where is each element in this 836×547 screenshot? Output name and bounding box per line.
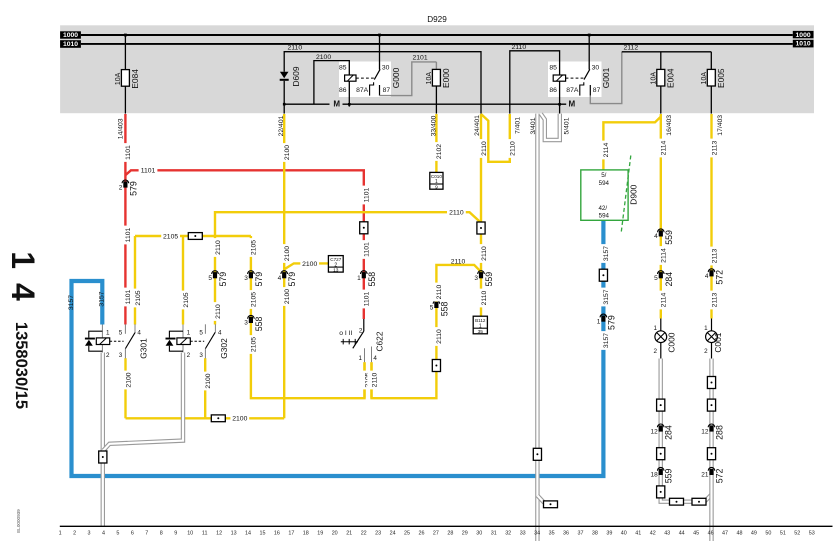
svg-text:16/403: 16/403 [666, 115, 673, 136]
svg-text:E004: E004 [665, 68, 675, 88]
svg-text:12: 12 [701, 428, 709, 435]
relay G001 wire 2110 to pin85 and 7/401 drop [510, 51, 560, 114]
svg-text:EL0000939: EL0000939 [16, 509, 21, 533]
pin 1 connector 558 [361, 271, 368, 274]
svg-text:11: 11 [202, 531, 208, 537]
splices on C000 ground ribbon [657, 399, 665, 411]
wire 2110 branch to C622 pin4 [372, 265, 482, 398]
svg-text:48: 48 [737, 531, 743, 537]
svg-text:16: 16 [274, 531, 280, 537]
svg-text:87: 87 [593, 87, 601, 94]
svg-text:87A: 87A [356, 87, 369, 94]
svg-text:B112: B112 [475, 318, 486, 323]
svg-text:5: 5 [199, 329, 203, 336]
svg-text:85: 85 [549, 65, 557, 72]
svg-text:1101: 1101 [125, 145, 132, 160]
relay G000 pin86 wire to M [348, 81, 350, 106]
ribbon splice on 3401 [533, 448, 541, 460]
junction ticks on bus 1000 [124, 34, 127, 37]
connector G302 with diode and switch [182, 325, 184, 353]
relay G000 pin87A [370, 82, 374, 95]
svg-text:1101: 1101 [364, 187, 371, 202]
svg-text:1000: 1000 [796, 32, 811, 39]
wire 3157 blue loop D900 to G301 [72, 220, 604, 476]
wire 2100 horizontal to G301 pin3 [126, 417, 285, 419]
label 2100 horizontal [230, 414, 249, 423]
labels 2110 main column [477, 139, 485, 158]
splice on 2100 horizontal [211, 415, 225, 422]
svg-text:13: 13 [333, 267, 339, 273]
svg-text:18: 18 [650, 472, 658, 479]
splice on 1101 red [360, 222, 368, 234]
svg-text:14: 14 [5, 251, 41, 315]
svg-text:558: 558 [254, 316, 264, 331]
svg-text:5: 5 [119, 329, 123, 336]
label 2105 G301 pin4 [131, 289, 139, 308]
engine-compartment band [60, 25, 814, 113]
wire 2105 G301 pin4 drop [134, 236, 136, 325]
fuse E005 10A [710, 52, 712, 70]
svg-text:10A: 10A [426, 72, 433, 85]
svg-text:C001: C001 [713, 332, 723, 352]
svg-text:M: M [333, 100, 340, 109]
svg-text:4: 4 [373, 355, 377, 362]
svg-text:2: 2 [653, 348, 657, 355]
wire 2100 G302 pin3 drop [204, 358, 206, 418]
wire 2112 relay G001 pin87 to fuses E004 E005 [590, 52, 622, 104]
svg-text:2110: 2110 [436, 284, 443, 299]
wire 16/403 2114 vertical [660, 114, 662, 319]
svg-text:3157: 3157 [99, 291, 106, 306]
splices on C001 ground ribbon [707, 377, 715, 389]
svg-text:1: 1 [653, 325, 657, 332]
svg-text:G302: G302 [219, 338, 229, 359]
splice on 2105 horizontal [188, 233, 202, 240]
svg-text:39: 39 [606, 531, 612, 537]
pin 2 connector 579 on red [122, 180, 129, 183]
svg-text:5: 5 [654, 275, 658, 282]
svg-text:1: 1 [704, 325, 708, 332]
svg-text:2100: 2100 [284, 145, 291, 160]
svg-text:14: 14 [245, 531, 251, 537]
pin 21 connector 572 [708, 467, 715, 470]
relay G001 pin30 wire [588, 35, 590, 70]
bus 1000 [81, 34, 793, 36]
M line of relay coils [284, 103, 329, 105]
svg-text:19: 19 [317, 531, 323, 537]
labels 3157 blue [599, 244, 607, 263]
svg-text:2: 2 [73, 531, 76, 537]
svg-text:2114: 2114 [661, 140, 668, 155]
relay G001 coil [553, 75, 565, 81]
svg-text:2101: 2101 [413, 55, 428, 62]
svg-text:2: 2 [119, 184, 123, 191]
svg-text:1010: 1010 [63, 41, 78, 48]
svg-text:17/403: 17/403 [717, 115, 724, 136]
label 2102 [432, 142, 440, 161]
wire 5401 ribbon loop [541, 114, 560, 140]
relay G001 [548, 62, 602, 98]
svg-text:594: 594 [599, 213, 610, 220]
svg-text:1: 1 [357, 275, 361, 282]
wire 2100 G301 pin3 drop [124, 358, 126, 418]
svg-text:1: 1 [479, 323, 482, 329]
svg-text:15: 15 [260, 531, 266, 537]
svg-text:2110: 2110 [451, 258, 466, 265]
svg-text:45: 45 [693, 531, 699, 537]
svg-text:2110: 2110 [481, 141, 488, 156]
svg-text:4: 4 [278, 275, 282, 282]
svg-text:3/401: 3/401 [530, 117, 537, 134]
svg-text:9: 9 [174, 531, 177, 537]
svg-text:87A: 87A [566, 87, 579, 94]
svg-text:2: 2 [359, 327, 363, 334]
svg-text:1: 1 [435, 179, 438, 185]
svg-text:1101: 1101 [364, 291, 371, 306]
lamp C000 ground ribbon [661, 359, 712, 502]
svg-text:7: 7 [145, 531, 148, 537]
bus label box 1000 right [793, 31, 814, 38]
svg-text:85: 85 [339, 65, 347, 72]
wire 2100 branch to C727 [284, 263, 328, 269]
svg-text:26: 26 [419, 531, 425, 537]
svg-text:2105: 2105 [251, 337, 258, 352]
svg-text:2110: 2110 [436, 329, 443, 344]
svg-text:52: 52 [794, 531, 800, 537]
svg-text:8: 8 [160, 531, 163, 537]
wire 17/403 2113 vertical [710, 114, 712, 319]
svg-text:23: 23 [375, 531, 381, 537]
svg-text:37: 37 [578, 531, 584, 537]
svg-text:86: 86 [339, 87, 347, 94]
label 2100 G301 [121, 371, 129, 390]
label 2105 G302 [179, 291, 187, 310]
svg-text:2114: 2114 [661, 292, 668, 307]
svg-text:E084: E084 [130, 69, 140, 89]
svg-text:579: 579 [254, 272, 264, 287]
svg-text:36: 36 [563, 531, 569, 537]
svg-text:14/403: 14/403 [117, 118, 124, 139]
relay G000 pin30 wire [379, 35, 381, 70]
svg-text:13: 13 [231, 531, 237, 537]
svg-text:30: 30 [592, 65, 600, 72]
relay G000 coil-contact dashed link [356, 77, 374, 79]
wire 1101 red horizontal branch [125, 170, 363, 319]
svg-text:12: 12 [650, 428, 658, 435]
svg-text:3: 3 [244, 275, 248, 282]
label 2110 horizontal [447, 208, 466, 217]
svg-text:2110: 2110 [215, 240, 222, 255]
bus 1010 [81, 43, 793, 45]
svg-text:3157: 3157 [603, 246, 610, 261]
splice on 3157 blue [599, 269, 607, 281]
relay G000 wire 2100 to pin85 [314, 61, 349, 104]
svg-text:G001: G001 [601, 67, 611, 88]
svg-text:50: 50 [765, 531, 771, 537]
svg-text:41: 41 [635, 531, 641, 537]
svg-text:572: 572 [715, 468, 725, 483]
svg-text:3157: 3157 [603, 333, 610, 348]
labels 2110 left column [211, 238, 219, 257]
svg-text:1: 1 [59, 531, 62, 537]
bottom grid numbers [59, 531, 815, 537]
svg-text:35: 35 [478, 329, 484, 335]
pin 12 connector 284 [657, 424, 664, 427]
relay G001 pin86 wire to M and 5401 exit [559, 81, 561, 113]
svg-text:5: 5 [430, 305, 434, 312]
svg-text:2110: 2110 [371, 372, 378, 387]
svg-text:559: 559 [664, 468, 674, 483]
svg-text:2102: 2102 [436, 144, 443, 159]
svg-text:35: 35 [549, 531, 555, 537]
svg-text:47: 47 [722, 531, 728, 537]
svg-text:1: 1 [187, 329, 191, 336]
svg-text:18: 18 [303, 531, 309, 537]
wire 14/403 1101 red vertical to G301 pin5 [124, 114, 126, 325]
svg-text:2100: 2100 [232, 416, 247, 423]
svg-text:2112: 2112 [624, 45, 639, 52]
svg-text:594: 594 [599, 180, 610, 187]
svg-text:7/401: 7/401 [515, 117, 522, 134]
svg-text:2100: 2100 [302, 261, 317, 268]
svg-text:579: 579 [606, 315, 616, 330]
wire 33/400 2102 vertical [435, 114, 437, 172]
svg-text:1: 1 [597, 318, 601, 325]
bus label box 1010 left [60, 40, 81, 48]
svg-text:2: 2 [187, 352, 191, 359]
svg-text:5: 5 [208, 275, 212, 282]
svg-text:32: 32 [505, 531, 511, 537]
relay G001 pin87 [589, 85, 591, 96]
connector box C727 [328, 256, 343, 273]
svg-text:M: M [569, 100, 576, 109]
wire 2101 relay G000 pin87 to fuse E000 [380, 62, 437, 96]
svg-text:2114: 2114 [661, 248, 668, 263]
svg-text:2100: 2100 [205, 373, 212, 388]
svg-text:21: 21 [701, 472, 709, 479]
wire 7/401 2110 loop [481, 114, 510, 162]
svg-text:12: 12 [216, 531, 222, 537]
svg-text:o I II: o I II [339, 330, 352, 337]
svg-text:10A: 10A [701, 72, 708, 85]
label 1101 horizontal [139, 166, 158, 175]
wire G302 pin2 ribbon join [103, 353, 183, 451]
svg-text:3157: 3157 [603, 289, 610, 304]
svg-text:22: 22 [361, 531, 367, 537]
svg-text:2110: 2110 [215, 304, 222, 319]
relay G001 contact blade [584, 69, 590, 79]
svg-text:2113: 2113 [711, 292, 718, 307]
svg-text:53: 53 [809, 531, 815, 537]
fuse E000 10A [435, 62, 437, 70]
svg-text:9: 9 [435, 184, 438, 190]
junction D609 to M line [283, 103, 286, 106]
svg-text:2105: 2105 [183, 292, 190, 307]
svg-text:5/: 5/ [601, 172, 606, 179]
svg-text:5/401: 5/401 [564, 117, 571, 134]
connector box C010 [430, 172, 443, 189]
svg-text:28: 28 [447, 531, 453, 537]
labels 2114 column [657, 139, 665, 158]
bus label box 1000 left [60, 31, 81, 38]
svg-text:2110: 2110 [512, 44, 527, 51]
connector box B112 [473, 316, 487, 334]
fuse E004 10A [660, 52, 662, 70]
svg-text:29: 29 [462, 531, 468, 537]
svg-text:579: 579 [128, 181, 138, 196]
wire 2105 chain to C622 pin1 [251, 236, 365, 398]
svg-text:4: 4 [654, 233, 658, 240]
svg-text:D929: D929 [427, 15, 447, 24]
svg-text:2113: 2113 [711, 248, 718, 263]
svg-text:3: 3 [474, 275, 478, 282]
svg-text:559: 559 [664, 230, 674, 245]
svg-text:2105: 2105 [251, 292, 258, 307]
svg-text:24/401: 24/401 [474, 115, 481, 136]
wire G301 pin2 ribbon to bottom [101, 353, 105, 527]
connector D900 dashed diagonal [621, 156, 631, 232]
svg-text:20: 20 [332, 531, 338, 537]
relay G000 coil [345, 75, 356, 81]
bus label box 1010 right [793, 40, 814, 48]
lamp C001 [711, 319, 713, 332]
svg-text:4: 4 [137, 329, 141, 336]
svg-text:21: 21 [346, 531, 352, 537]
bottom axis line [60, 525, 833, 527]
svg-text:87: 87 [383, 87, 391, 94]
labels 1101 red column [121, 143, 129, 162]
svg-text:10A: 10A [650, 72, 657, 85]
wire 3401 bottom stub to splice [537, 496, 546, 504]
svg-text:579: 579 [218, 272, 228, 287]
svg-text:43: 43 [664, 531, 670, 537]
relay G001 pin87A [580, 82, 584, 95]
labels 2113 column [707, 139, 715, 158]
splice on G301 ground ribbon [99, 451, 107, 463]
pin 18 connector 559 [657, 467, 664, 470]
svg-text:5: 5 [116, 531, 119, 537]
labels 2100 column [280, 143, 288, 162]
wire 2114 branch to D900 [603, 117, 660, 170]
svg-text:25: 25 [404, 531, 410, 537]
svg-text:2113: 2113 [711, 140, 718, 155]
svg-text:86: 86 [549, 87, 557, 94]
wire 2105 horizontal [135, 235, 251, 237]
splice on 2110 branch [432, 360, 440, 372]
svg-text:284: 284 [664, 425, 674, 440]
fuse E084 10A [124, 35, 126, 70]
wire 2110 horizontal [215, 212, 481, 324]
relay G001 coil-contact dashed link [566, 77, 584, 79]
wire 2105 G302 pin1 drop [182, 236, 184, 325]
svg-text:288: 288 [715, 425, 725, 440]
svg-text:6: 6 [131, 531, 134, 537]
pin 4 connector 559 [658, 229, 665, 232]
svg-text:24: 24 [390, 531, 396, 537]
svg-text:10: 10 [187, 531, 193, 537]
svg-text:31: 31 [491, 531, 497, 537]
label 2105 horizontal [161, 232, 180, 241]
svg-text:2105: 2105 [251, 240, 258, 255]
label 2110 C622 [367, 371, 375, 390]
svg-text:2110: 2110 [449, 210, 464, 217]
svg-text:33: 33 [520, 531, 526, 537]
svg-text:2100: 2100 [284, 246, 291, 261]
svg-text:1000: 1000 [63, 32, 78, 39]
pin 1 connector 579 on blue [600, 314, 607, 317]
labels 2105 chain [247, 238, 255, 257]
ignition switch C622 [363, 319, 365, 331]
labels 2110 branch column [432, 283, 440, 302]
pin 4 connector 572 [708, 269, 715, 272]
diode D609 [280, 72, 289, 78]
lamp C000 [660, 319, 662, 332]
relay G000 pin87 [379, 85, 381, 96]
relay G000 [339, 62, 391, 98]
svg-text:3: 3 [199, 352, 203, 359]
svg-text:3: 3 [119, 352, 123, 359]
svg-text:40: 40 [621, 531, 627, 537]
svg-text:2: 2 [106, 352, 110, 359]
pin 3 connector 558 [248, 315, 255, 318]
svg-text:2100: 2100 [284, 289, 291, 304]
svg-text:G301: G301 [138, 338, 148, 359]
pin 5 connector 579 [212, 271, 219, 274]
svg-text:E000: E000 [441, 68, 451, 88]
labels 1101 C622 column [360, 186, 368, 205]
pin 4 connector 579 [281, 271, 288, 274]
svg-text:49: 49 [751, 531, 757, 537]
label 2100 to C727 [300, 259, 319, 268]
svg-text:2100: 2100 [316, 54, 331, 61]
label 2105 C622 [360, 371, 368, 390]
pin 5 connector 558 [433, 300, 440, 303]
pin 3 connector 579 [248, 271, 255, 274]
svg-text:46: 46 [708, 531, 714, 537]
svg-text:34: 34 [534, 531, 540, 537]
svg-text:2: 2 [704, 348, 708, 355]
pin 12 connector 288 [708, 424, 715, 427]
svg-text:1358030/15: 1358030/15 [12, 322, 30, 409]
svg-text:27: 27 [433, 531, 439, 537]
svg-text:3157: 3157 [68, 295, 75, 310]
svg-text:D900: D900 [629, 184, 639, 204]
svg-text:22/401: 22/401 [278, 115, 285, 136]
svg-text:579: 579 [287, 272, 297, 287]
wire 2110 line from D609 to 24/401 drop [284, 52, 481, 114]
svg-text:D609: D609 [291, 66, 301, 86]
svg-text:1: 1 [106, 329, 110, 336]
svg-text:2110: 2110 [510, 141, 517, 156]
label 2110 7/401 leg [506, 139, 514, 158]
svg-text:42: 42 [650, 531, 656, 537]
pin 3 connector 559 [478, 271, 485, 274]
svg-text:284: 284 [664, 272, 674, 287]
svg-text:4: 4 [705, 273, 709, 280]
svg-text:1101: 1101 [364, 242, 371, 257]
svg-text:1010: 1010 [796, 41, 811, 48]
svg-text:2100: 2100 [125, 372, 132, 387]
svg-text:G000: G000 [391, 67, 401, 88]
svg-text:30: 30 [382, 65, 390, 72]
svg-text:3: 3 [88, 531, 91, 537]
label 2100 G302 [201, 372, 209, 391]
connector D900 green box [581, 170, 628, 220]
wire 24/401 2110 vertical [480, 114, 482, 316]
svg-text:4: 4 [218, 329, 222, 336]
svg-text:51: 51 [780, 531, 786, 537]
svg-text:2105: 2105 [163, 233, 178, 240]
